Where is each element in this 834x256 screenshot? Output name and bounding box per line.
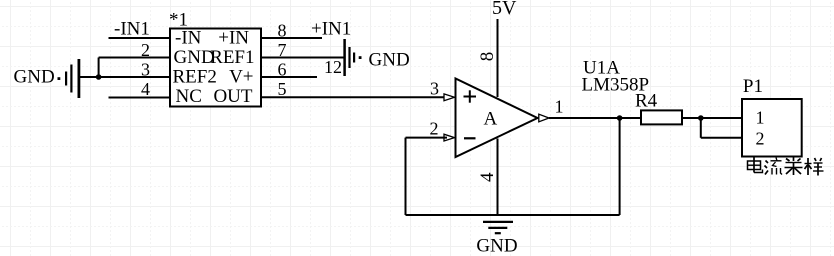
- connector box *1: [170, 29, 261, 107]
- wire pin4: [109, 97, 171, 99]
- junction dot at (98.6,77): [96, 74, 102, 80]
- char 流: [765, 158, 783, 175]
- wire feedback vertical right: [619, 118, 621, 215]
- svg-text:GND: GND: [174, 47, 215, 68]
- wire pin5 to op-amp: [261, 96, 447, 98]
- svg-text:R4: R4: [635, 91, 658, 112]
- wire pin1: [109, 37, 171, 39]
- svg-text:GND: GND: [14, 67, 55, 88]
- svg-text:REF2: REF2: [173, 67, 217, 88]
- wire op-amp pin2: [406, 137, 448, 139]
- svg-text:2: 2: [430, 119, 439, 139]
- svg-text:8: 8: [278, 21, 287, 41]
- wire op-amp output: [549, 117, 641, 119]
- op-amp input arrow pin2: [444, 134, 455, 141]
- op-amp plus sign: [464, 90, 477, 102]
- wire to P1 pin2: [701, 137, 742, 139]
- svg-text:+IN: +IN: [218, 28, 249, 49]
- svg-text:7: 7: [278, 40, 287, 60]
- svg-text:P1: P1: [743, 76, 763, 97]
- wire junction down: [700, 118, 702, 138]
- svg-text:NC: NC: [176, 86, 202, 107]
- label 电流采样 (current sampling), hand-drawn strokes: [748, 158, 824, 176]
- svg-text:3: 3: [141, 60, 150, 80]
- char 样: [805, 158, 824, 176]
- svg-text:V+: V+: [229, 67, 253, 88]
- wire GND to junction (pin3 net): [80, 76, 170, 78]
- svg-text:12: 12: [324, 57, 342, 77]
- svg-text:5V: 5V: [492, 0, 517, 19]
- char 电: [748, 158, 763, 173]
- svg-text:1: 1: [555, 97, 564, 117]
- ground GND (right power ground symbol, rotated): [345, 39, 362, 76]
- svg-text:1: 1: [756, 108, 765, 128]
- junction dot output: [617, 115, 623, 121]
- svg-text:3: 3: [430, 79, 439, 99]
- wire vertical junction to pin2 row: [98, 58, 100, 78]
- wire pin6: [261, 76, 317, 78]
- svg-text:+IN1: +IN1: [311, 19, 351, 40]
- op-amp U1A triangle: [456, 79, 538, 158]
- svg-text:6: 6: [278, 60, 287, 80]
- svg-text:8: 8: [477, 52, 498, 62]
- ground GND (left power ground symbol): [58, 59, 79, 98]
- wire R4 to junction: [682, 117, 742, 119]
- ground GND (bottom power ground symbol): [483, 222, 513, 233]
- wire pin 4 down: [497, 139, 499, 216]
- junction dot P1: [698, 115, 704, 121]
- svg-text:GND: GND: [476, 236, 517, 256]
- op-amp minus sign: [464, 137, 476, 139]
- wire pin2: [99, 57, 170, 59]
- char 采: [785, 158, 803, 176]
- svg-text:-IN1: -IN1: [114, 19, 150, 40]
- resistor R4: [641, 110, 682, 124]
- wire bottom horizontal: [406, 214, 620, 216]
- connector P1: [742, 99, 802, 157]
- wire feedback vertical left: [405, 138, 407, 215]
- power 5V rail wire (pin 8): [497, 19, 499, 97]
- svg-text:4: 4: [477, 172, 498, 182]
- wire pin8: [261, 37, 322, 39]
- svg-text:2: 2: [141, 40, 150, 60]
- svg-text:REF1: REF1: [210, 47, 254, 68]
- svg-text:OUT: OUT: [213, 86, 252, 107]
- svg-text:5: 5: [278, 79, 287, 99]
- op-amp output arrow pin1: [539, 114, 549, 122]
- svg-text:GND: GND: [369, 50, 410, 71]
- svg-text:-IN: -IN: [175, 28, 202, 49]
- svg-text:2: 2: [756, 129, 765, 149]
- wire pin7 to GND: [261, 57, 344, 59]
- op-amp input arrow pin3: [444, 94, 455, 101]
- svg-text:4: 4: [141, 79, 150, 99]
- svg-text:A: A: [484, 109, 498, 130]
